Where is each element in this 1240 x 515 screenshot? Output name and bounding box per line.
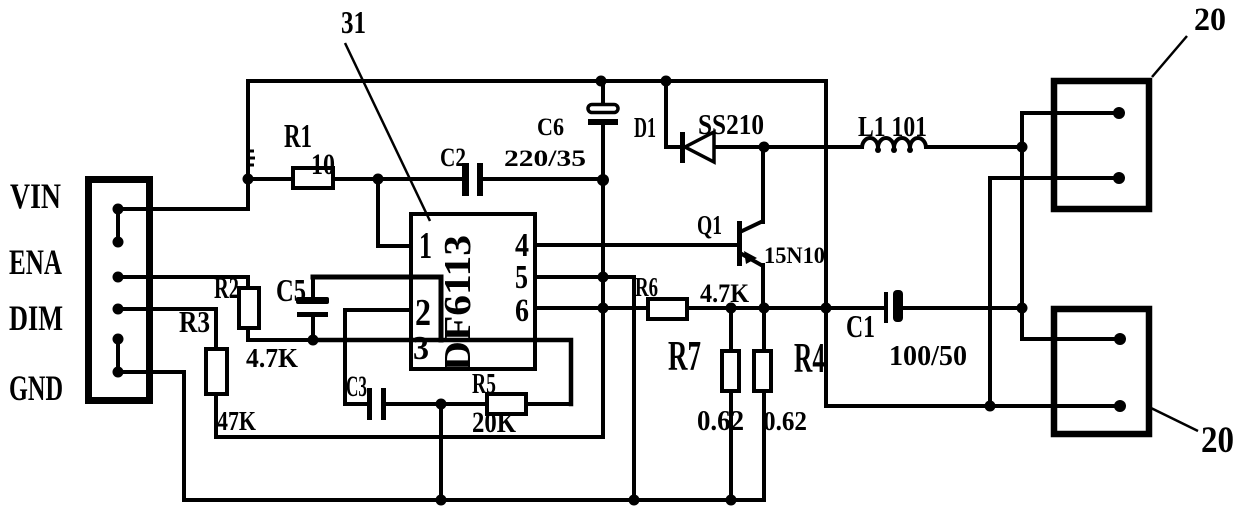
svg-text:6: 6 xyxy=(515,293,529,329)
wire right vertical x=826 from top bus to lower output row xyxy=(826,81,1120,406)
svg-text:DF6113: DF6113 xyxy=(437,235,479,371)
wire R7 top riser xyxy=(729,308,733,351)
wire D1 anode to L1 xyxy=(714,145,862,149)
wire R5 right xyxy=(526,402,571,406)
transistor Q1 emitter slant with arrow xyxy=(740,253,763,266)
wire R4 top riser xyxy=(762,308,766,351)
leader line to 20 bottom xyxy=(1151,408,1198,431)
svg-text:0.62: 0.62 xyxy=(763,406,807,436)
svg-text:GND: GND xyxy=(9,368,63,408)
svg-text:SS210: SS210 xyxy=(698,110,764,141)
svg-text:100/50: 100/50 xyxy=(889,340,967,372)
resistor R7 xyxy=(722,351,739,391)
svg-text:DIM: DIM xyxy=(9,298,63,338)
input connector J1 body xyxy=(89,180,150,401)
capacitor C6 plates xyxy=(588,105,618,113)
capacitor C5 plates xyxy=(296,297,329,317)
wire ENA row to R2 xyxy=(118,277,248,288)
diode D1 SS210 xyxy=(680,132,714,163)
svg-text:L1 101: L1 101 xyxy=(858,112,927,143)
wire pin4 row to Q1 base xyxy=(535,243,739,247)
wire top supply bus xyxy=(248,79,826,83)
svg-text:2: 2 xyxy=(415,292,431,334)
svg-text:ENA: ENA xyxy=(9,242,62,282)
wire bottom connector pin stubs xyxy=(1051,337,1120,341)
wire left vertical drop from top bus to R1 row xyxy=(246,81,250,209)
wire GND pin to ground bus xyxy=(118,372,184,500)
wire step from C5 top into IC xyxy=(313,277,441,340)
wire x=990 drop from upper connector pin2 row xyxy=(990,178,1119,406)
svg-text:VIN: VIN xyxy=(10,176,61,216)
wire R4 bottom riser xyxy=(762,391,766,500)
wire R7 bottom riser xyxy=(729,391,733,500)
wire x=1022 output spine xyxy=(1022,113,1120,339)
wire pin1 drop and entry xyxy=(378,179,411,246)
transistor Q1 base bar xyxy=(737,221,742,266)
svg-text:R6: R6 xyxy=(635,272,658,302)
svg-text:C3: C3 xyxy=(346,370,367,403)
wire R3 bottom to feedback bus xyxy=(216,394,603,437)
wire pin2 exit, drop and C3 row xyxy=(345,310,411,404)
svg-text:1: 1 xyxy=(419,225,432,267)
wire R1 row xyxy=(248,177,461,181)
wire C5 top stub xyxy=(311,277,315,298)
wire main vertical spine x=603 xyxy=(601,125,605,437)
wire pin6 / current-sense row xyxy=(535,306,884,310)
output connector top (20) body xyxy=(1054,81,1149,209)
svg-text:C5: C5 xyxy=(276,272,306,308)
svg-text:5: 5 xyxy=(515,259,528,296)
resistor R1 xyxy=(293,168,333,188)
leader line to 31 xyxy=(345,43,430,221)
svg-text:R4: R4 xyxy=(794,336,825,382)
wire pin5 row and drop to ground bus xyxy=(535,277,634,500)
svg-text:4.7K: 4.7K xyxy=(700,279,750,308)
wire L1 right to output junction xyxy=(926,145,1022,149)
output connector bottom (20) body xyxy=(1054,309,1149,434)
svg-text:C6: C6 xyxy=(537,114,564,141)
wire top connector pin stubs xyxy=(1051,111,1119,115)
wire C2 right to C6 junction xyxy=(484,177,603,181)
svg-text:R5: R5 xyxy=(472,369,496,400)
svg-text:47K: 47K xyxy=(217,406,256,436)
junction node dots xyxy=(243,76,1028,506)
input connector pin links xyxy=(116,209,120,242)
wire pin3 row through IC to R5 right riser xyxy=(313,340,571,404)
wire C6 top stub xyxy=(601,81,605,104)
svg-text:31: 31 xyxy=(341,4,366,40)
wire DIM row to R3 xyxy=(118,309,216,349)
svg-text:0.62: 0.62 xyxy=(697,406,744,437)
svg-text:20: 20 xyxy=(1201,420,1234,461)
capacitor C3 plates xyxy=(367,388,386,420)
wire R2 bottom to node xyxy=(248,328,313,340)
wire Q1 collector riser xyxy=(761,147,765,222)
svg-text:D1: D1 xyxy=(634,113,656,144)
svg-text:C2: C2 xyxy=(440,143,466,172)
resistor R6 xyxy=(648,299,687,319)
capacitor C1 plates xyxy=(884,290,903,323)
op-amp U1 DF6113 IC body xyxy=(411,214,535,369)
capacitor C2 plates xyxy=(462,163,483,196)
inductor L1 xyxy=(862,138,926,148)
wire C3 right plate to R5 xyxy=(387,402,487,406)
resistor R3 xyxy=(206,349,227,394)
svg-text:20K: 20K xyxy=(472,406,517,439)
input connector pins xyxy=(113,204,124,378)
svg-text:20: 20 xyxy=(1194,2,1226,38)
svg-text:C1: C1 xyxy=(846,308,875,344)
svg-text:3: 3 xyxy=(413,330,429,367)
resistor R4 xyxy=(754,351,771,391)
wire C3 node drop to ground bus xyxy=(439,404,443,500)
wire C1 right to output node xyxy=(903,306,1022,310)
output connector bottom pins xyxy=(1114,333,1126,412)
svg-text:R2: R2 xyxy=(214,270,239,305)
wire D1 branch from top bus xyxy=(666,81,680,147)
wire C5 bottom stub xyxy=(311,317,315,340)
wire VIN pin to left drop xyxy=(118,207,248,211)
svg-text:220/35: 220/35 xyxy=(504,146,586,171)
wire Q1 emitter riser xyxy=(761,265,765,308)
leader line to 20 top xyxy=(1152,36,1187,77)
scan artifact tick on left drop xyxy=(250,151,255,165)
svg-text:R7: R7 xyxy=(668,334,701,380)
svg-text:4.7K: 4.7K xyxy=(246,343,298,373)
wire ground bottom bus xyxy=(184,498,764,502)
output connector top pins xyxy=(1113,107,1125,184)
resistor R2 xyxy=(239,288,259,328)
svg-text:10: 10 xyxy=(311,148,335,181)
svg-text:R3: R3 xyxy=(179,304,210,339)
svg-text:15N10: 15N10 xyxy=(764,243,825,268)
svg-text:R1: R1 xyxy=(284,118,312,155)
svg-text:Q1: Q1 xyxy=(697,210,722,240)
transistor Q1 collector slant xyxy=(740,221,763,232)
resistor R5 xyxy=(487,394,526,414)
